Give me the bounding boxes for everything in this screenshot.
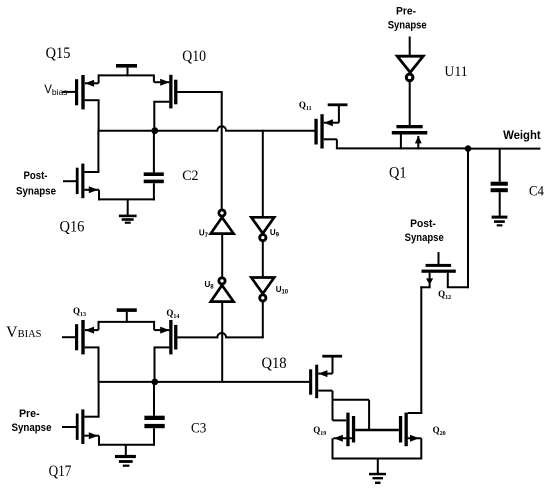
- transistor Q17 channel bar: [81, 409, 84, 444]
- transistor Q17 gate lead: [62, 426, 76, 428]
- transistor Q1 channel bar: [392, 131, 428, 135]
- capacitor C4: [491, 149, 508, 216]
- transistor Q11 drain lead with arrow: [324, 106, 339, 126]
- svg-text:C4: C4: [529, 184, 545, 200]
- wire Pre-Synapse to U11: [409, 37, 411, 57]
- wire top rail Q15-Q10: [99, 74, 154, 76]
- transistor Q11 source lead: [324, 139, 337, 148]
- transistor Q19 channel bar: [352, 416, 355, 443]
- transistor Q12 right lead: [447, 273, 468, 288]
- transistor Q14 source lead with arrow: [154, 321, 169, 334]
- junction dot (C2 node): [151, 127, 158, 134]
- transistor Q10 channel bar: [169, 75, 172, 109]
- transistor Q15 gate bar: [75, 79, 78, 105]
- ground (below Q17/C3): [115, 445, 136, 467]
- power symbol VDD bar (Q11): [328, 103, 348, 106]
- transistor Q16 channel bar: [81, 164, 84, 199]
- wire U11 to Q1 gate: [409, 81, 411, 126]
- svg-text:C3: C3: [191, 421, 206, 437]
- svg-text:U11: U11: [444, 64, 467, 80]
- svg-text:Post-: Post-: [24, 170, 48, 182]
- wire lower mid rail (to Q18 gate): [99, 381, 310, 383]
- transistor Q16 gate bar: [76, 168, 79, 194]
- wire Weight rail: [468, 148, 540, 150]
- transistor Q20 drain lead: [408, 412, 423, 414]
- transistor Q16 source lead with arrow: [84, 186, 99, 200]
- wire U10 output down: [262, 302, 264, 339]
- svg-text:Q15: Q15: [46, 45, 71, 62]
- svg-text:Weight: Weight: [503, 130, 541, 142]
- transistor Q10 drain lead: [153, 102, 169, 131]
- transistor Q11 channel bar: [320, 114, 323, 148]
- svg-text:Pre-: Pre-: [396, 6, 416, 18]
- svg-text:Pre-: Pre-: [19, 408, 40, 420]
- transistor Q18 channel bar: [315, 365, 318, 399]
- transistor Q15 source lead with arrow: [85, 74, 99, 86]
- svg-text:C2: C2: [182, 168, 198, 184]
- transistor Q16 gate lead: [63, 180, 76, 182]
- inverter U9 triangle: [251, 217, 274, 233]
- transistor Q16 drain lead: [84, 130, 99, 172]
- inverter U10 bubble: [260, 295, 266, 301]
- inverter U11 triangle: [397, 56, 423, 72]
- transistor Q1 gate bar: [396, 125, 422, 128]
- transistor Q12 gate bar: [426, 264, 452, 267]
- wire Q11 source to Q1: [336, 147, 468, 149]
- svg-text:Synapse: Synapse: [388, 19, 427, 31]
- svg-text:Post-: Post-: [410, 218, 436, 230]
- transistor Q15 drain lead: [85, 100, 100, 131]
- wire Q12 to Q20 drain: [420, 286, 422, 413]
- inverter U7 bubble: [219, 210, 225, 216]
- wire left inverter column (Q10 gate to U7): [221, 92, 223, 210]
- transistor Q14 gate bar: [174, 325, 177, 350]
- inverter U10 triangle: [251, 278, 274, 294]
- transistor Q10 gate bar: [174, 80, 177, 105]
- transistor Q18 gate bar: [309, 369, 312, 394]
- wire U9 to U10: [262, 241, 264, 278]
- wire bottom rail (mirror sources): [333, 458, 422, 460]
- wire Q14 gate to U10 output (with hop): [177, 333, 262, 337]
- wire bottom rail of Q17/C3: [98, 444, 155, 446]
- inverter U8 bubble: [219, 278, 225, 284]
- transistor Q1 left lead: [400, 135, 402, 150]
- inverter U7 triangle: [211, 217, 234, 233]
- transistor Q18 source lead: [318, 391, 332, 421]
- transistor Q12 gate stem: [438, 252, 440, 264]
- svg-text:Synapse: Synapse: [405, 232, 444, 244]
- transistor Q17 source lead with arrow: [84, 432, 99, 446]
- transistor Q14 drain lead: [154, 347, 170, 382]
- wire U8 input down to lower rail: [221, 302, 223, 382]
- inverter U8 triangle: [211, 285, 234, 301]
- power symbol VDD bar (top-left block): [116, 64, 137, 76]
- power symbol VDD bar (bottom-left block): [117, 308, 137, 323]
- transistor Q13 channel bar: [81, 320, 84, 354]
- svg-text:Q17: Q17: [49, 463, 72, 480]
- inverter U11 bubble: [406, 74, 413, 81]
- wire U7 to U8: [221, 234, 223, 278]
- capacitor C2: [144, 130, 164, 201]
- transistor Q11 gate bar: [314, 119, 317, 145]
- wire right inverter column (rail to U9): [262, 130, 264, 218]
- transistor Q17 drain lead: [84, 381, 99, 417]
- ground (below Q16/C2): [119, 199, 137, 223]
- transistor Q13 gate bar: [75, 324, 78, 350]
- inverter U9 bubble: [260, 235, 266, 241]
- svg-text:Synapse: Synapse: [12, 422, 52, 434]
- ground (below current mirror): [369, 459, 386, 485]
- transistor Q20 channel bar: [405, 413, 408, 447]
- transistor Q19 source lead with arrow: [333, 435, 352, 460]
- svg-text:Synapse: Synapse: [16, 186, 56, 198]
- wire Q19 gate lead: [333, 419, 347, 421]
- svg-text:Vbias: Vbias: [44, 84, 67, 97]
- transistor Q15 channel bar: [81, 75, 84, 109]
- transistor Q18 drain lead with arrow: [318, 357, 332, 377]
- transistor Q15 gate lead: [63, 91, 76, 93]
- transistor Q13 gate lead: [62, 336, 75, 338]
- ground (below C4): [492, 216, 508, 227]
- transistor Q20 gate bar: [399, 416, 402, 443]
- junction dot (Weight node): [465, 145, 472, 152]
- wire mirror gate wire Q19-Q20: [355, 429, 399, 431]
- svg-text:Q1: Q1: [389, 164, 407, 181]
- transistor Q10 source lead with arrow: [154, 74, 170, 85]
- transistor Q14 channel bar: [169, 320, 172, 354]
- svg-text:Q18: Q18: [262, 355, 287, 372]
- wire bottom rail of Q16/C2: [98, 198, 155, 200]
- transistor Q10 gate lead: [177, 91, 222, 93]
- transistor Q20 source lead with arrow: [405, 435, 422, 460]
- svg-text:Q10: Q10: [182, 48, 206, 65]
- wire Q18 source branch to mirror node: [333, 400, 370, 431]
- transistor Q13 drain lead: [85, 347, 100, 382]
- transistor Q13 source lead with arrow: [85, 321, 99, 334]
- transistor Q12 left lead with arrow: [420, 273, 433, 288]
- transistor Q19 gate bar: [346, 413, 349, 447]
- transistor Q1 right lead with arrow: [415, 136, 422, 150]
- junction dot (C3 node): [151, 379, 158, 386]
- wire mid rail (node between Q15/Q16 and Q11 gate): [99, 126, 315, 130]
- power symbol VDD bar (Q18): [322, 355, 342, 358]
- svg-text:Q16: Q16: [60, 219, 85, 236]
- transistor Q12 channel bar: [422, 270, 456, 273]
- wire Weight node down to Q12: [467, 149, 469, 289]
- capacitor C3: [144, 382, 164, 446]
- transistor Q17 gate bar: [76, 414, 79, 440]
- wire top rail Q13-Q14: [99, 321, 155, 323]
